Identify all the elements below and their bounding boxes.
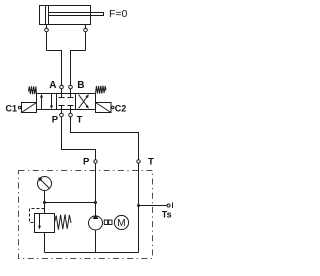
node junction gauge/relief bbox=[43, 201, 46, 204]
wire right port to valve B bbox=[71, 51, 86, 94]
valve right position cross arrow A-T bbox=[79, 95, 89, 108]
valve centre closed port top B bbox=[70, 94, 72, 98]
node junction P/pump bbox=[94, 201, 97, 204]
relief valve RV inlet bbox=[44, 203, 46, 214]
node Ts port bbox=[167, 204, 170, 207]
wire valve P down bbox=[62, 110, 96, 203]
svg-text:C1: C1 bbox=[6, 104, 18, 114]
node B port bbox=[69, 85, 73, 89]
svg-text:Ts: Ts bbox=[162, 210, 172, 220]
valve right position cross arrow P-B bbox=[79, 96, 89, 109]
relief valve RV spring bbox=[55, 215, 72, 230]
cylinder rod bbox=[49, 13, 104, 16]
wire pump suction bbox=[95, 230, 97, 253]
power unit enclosure bbox=[19, 171, 153, 259]
valve right spring bbox=[96, 86, 107, 94]
pump P1 bbox=[89, 216, 103, 230]
valve V1 body bbox=[37, 94, 96, 110]
wire cylinder right port line bbox=[85, 25, 87, 51]
relief valve RV arrow bbox=[39, 214, 41, 228]
node junction T/Ts bbox=[137, 204, 140, 207]
node P unit port bbox=[94, 160, 97, 163]
svg-text:T: T bbox=[148, 157, 154, 168]
node T unit port bbox=[137, 160, 140, 163]
cylinder left port bbox=[45, 28, 49, 32]
cylinder right port bbox=[84, 28, 88, 32]
wire relief valve drain bbox=[44, 233, 46, 253]
svg-text:M: M bbox=[117, 218, 125, 229]
svg-text:P: P bbox=[83, 157, 90, 168]
wire gauge stem bbox=[44, 191, 46, 203]
relief valve RV pilot dashed bbox=[30, 209, 45, 223]
pressure gauge G bbox=[38, 177, 52, 191]
valve left position up arrow bbox=[41, 97, 43, 110]
wire valve T down bbox=[71, 110, 139, 253]
wire tank line bbox=[45, 252, 139, 254]
node valve P port bbox=[60, 113, 64, 117]
wire gauge junction horizontal bbox=[45, 202, 96, 204]
wire Ts branch bbox=[139, 205, 168, 207]
Ts end tick bbox=[172, 203, 174, 209]
cylinder piston bbox=[45, 6, 47, 25]
node A port bbox=[60, 85, 64, 89]
valve centre closed port top A bbox=[61, 94, 63, 98]
pilot C1 bbox=[22, 103, 37, 113]
svg-text:P: P bbox=[52, 114, 59, 125]
valve centre closed port bottom T bbox=[70, 106, 72, 110]
svg-text:T: T bbox=[77, 114, 83, 125]
valve centre closed port bottom P bbox=[61, 106, 63, 110]
valve left position down arrow bbox=[51, 94, 53, 107]
relief valve RV body bbox=[35, 214, 55, 233]
svg-text:C2: C2 bbox=[115, 104, 127, 114]
svg-text:A: A bbox=[49, 80, 56, 91]
wire left port to valve A bbox=[47, 51, 62, 94]
cylinder body bbox=[40, 6, 91, 25]
wire cylinder left port line bbox=[46, 25, 48, 51]
coupling pump-motor bbox=[104, 220, 107, 225]
svg-text:F=0: F=0 bbox=[109, 8, 128, 20]
svg-text:B: B bbox=[77, 80, 84, 91]
motor M bbox=[114, 215, 128, 229]
node valve T port bbox=[69, 113, 73, 117]
valve left spring bbox=[28, 86, 36, 94]
pilot C2 bbox=[96, 103, 112, 113]
wire pump outlet bbox=[95, 203, 97, 216]
